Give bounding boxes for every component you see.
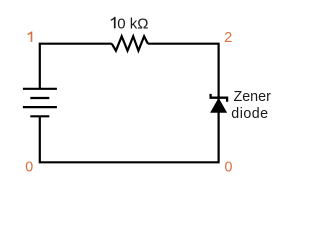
svg-text:0: 0: [225, 159, 233, 175]
battery V1 plate short upper: [30, 97, 49, 99]
svg-text:Zener: Zener: [234, 89, 272, 105]
battery V1 plate long top: [23, 88, 57, 90]
svg-text:diode: diode: [231, 106, 268, 122]
zener diode D1 cathode bar with bent ends: [211, 94, 228, 102]
wire from resistor left lead along top to node 1 corner, down to battery top plate: [40, 44, 112, 89]
battery V1 plate long lower: [23, 106, 57, 108]
node 1 label: [28, 32, 33, 42]
zener diode D1 anode triangle: [210, 98, 227, 113]
battery V1 plate short bottom: [30, 115, 49, 117]
svg-text:0: 0: [25, 159, 33, 175]
svg-text:0 kΩ: 0 kΩ: [117, 15, 148, 32]
resistor R1 zigzag: [112, 36, 148, 50]
resistor value label: digit 1 of 10 kΩ: [111, 17, 116, 29]
wire from battery bottom plate down, along bottom run (node 0 to node 0), up right side to node 2 corner, to resistor right lead: [40, 44, 219, 163]
svg-text:2: 2: [224, 30, 232, 46]
